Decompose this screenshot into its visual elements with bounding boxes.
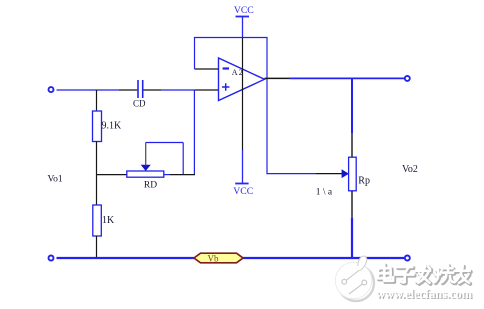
power VCC (top) [234,5,254,37]
svg-text:1K: 1K [102,215,115,226]
svg-text:VCC: VCC [233,186,253,197]
terminal P3 (top-right output port) [405,76,410,81]
wire [96,142,98,175]
watermark logo [335,256,374,301]
svg-text:CD: CD [133,99,146,109]
wire [144,89,162,91]
wire [194,89,218,91]
wire [57,89,120,91]
wire [96,90,98,111]
power VCC (bottom) [233,184,253,198]
wire (feedback loop) [195,38,317,174]
potentiometer RD [127,143,183,178]
wire [164,174,170,176]
potentiometer Rp [342,157,357,191]
wire [119,89,137,91]
wire [289,77,405,79]
resistor 9.1K [93,111,102,142]
wire [170,174,195,176]
terminal P4 (bottom-right port) [405,256,410,261]
watermark text (Chinese) [378,265,471,284]
svg-text:Vb: Vb [208,253,219,263]
wire [351,133,353,157]
svg-text:1 \ a: 1 \ a [316,188,333,198]
svg-text:VCC: VCC [234,5,254,16]
wire [351,218,353,258]
svg-text:RD: RD [144,181,157,191]
wire [96,175,98,205]
wire [97,174,127,176]
resistor 1K [93,205,102,236]
terminal P1 (top-left input port) [49,87,54,92]
terminal P2 (bottom-left port) [49,256,54,261]
wire (inverting input) [195,68,219,70]
wire [96,236,98,257]
wire [351,78,353,133]
net label Vb [194,253,243,263]
wire [351,191,353,218]
svg-text:Vo1: Vo1 [48,175,63,185]
svg-text:www.elecfans.com: www.elecfans.com [376,286,472,301]
watermark text (url) [376,286,473,302]
svg-text:Rp: Rp [358,176,370,187]
wire [161,89,194,91]
op-amp A2 [219,58,265,101]
junction (plus-input node) [193,90,195,175]
wire [242,38,244,151]
wire (output) [265,77,290,79]
wire [242,150,244,184]
wire [316,173,342,175]
svg-text:Vo2: Vo2 [402,164,418,175]
svg-text:9.1K: 9.1K [102,121,123,132]
wire (bottom rail) [57,257,405,259]
capacitor CD [138,80,143,98]
